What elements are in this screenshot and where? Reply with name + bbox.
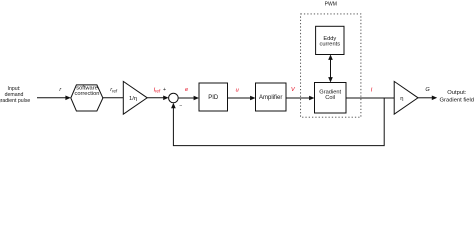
svg-text:Iref: Iref (154, 87, 161, 93)
wire: Gradient Coil to eta gain (346, 97, 394, 99)
block Gradient Coil (315, 83, 347, 114)
wire: eta to output (418, 96, 437, 101)
svg-text:G: G (425, 87, 430, 93)
output label: Gradient field (440, 90, 474, 103)
svg-text:e: e (185, 87, 188, 93)
wire: input to software correction (37, 96, 71, 101)
wire: Amplifier to Gradient Coil (286, 96, 315, 101)
svg-text:+: + (163, 87, 166, 93)
block: software correction (hexagon) (71, 85, 103, 111)
wire: feedback path (eta tap to summing junction) (171, 98, 384, 146)
svg-text:gradient pulse: gradient pulse (0, 98, 30, 104)
input label: demand gradient pulse (0, 86, 30, 104)
wire: 1/eta to summing junction (147, 96, 168, 101)
gain eta (U2) (394, 81, 418, 114)
svg-text:−: − (179, 103, 182, 109)
svg-text:Input:: Input: (8, 86, 21, 92)
block PID (199, 83, 228, 111)
svg-text:rref: rref (110, 87, 118, 93)
wire: summing junction to PID (178, 96, 199, 101)
block Eddy currents (316, 26, 344, 54)
wire: PID to Amplifier (228, 96, 256, 101)
summing junction (169, 93, 179, 103)
wire: Eddy currents to Gradient Coil (bidirectional) (328, 55, 333, 83)
svg-text:Coil: Coil (325, 95, 335, 101)
block Amplifier (256, 83, 287, 111)
svg-text:1/η: 1/η (129, 96, 137, 102)
svg-text:PWM: PWM (325, 1, 337, 7)
wire: software correction to 1/eta gain (103, 97, 123, 99)
gain 1/eta (U1) (123, 81, 147, 114)
svg-text:Output:: Output: (447, 90, 466, 96)
svg-text:PID: PID (208, 95, 219, 101)
svg-text:η: η (400, 96, 403, 102)
PWM subsystem boundary (dashed box) (301, 14, 361, 117)
svg-text:Amplifier: Amplifier (259, 95, 282, 101)
svg-text:correction: correction (75, 91, 100, 97)
svg-text:demand: demand (5, 92, 24, 98)
svg-text:Gradient field: Gradient field (440, 97, 474, 103)
svg-text:currents: currents (320, 41, 341, 47)
svg-text:u: u (236, 88, 239, 94)
